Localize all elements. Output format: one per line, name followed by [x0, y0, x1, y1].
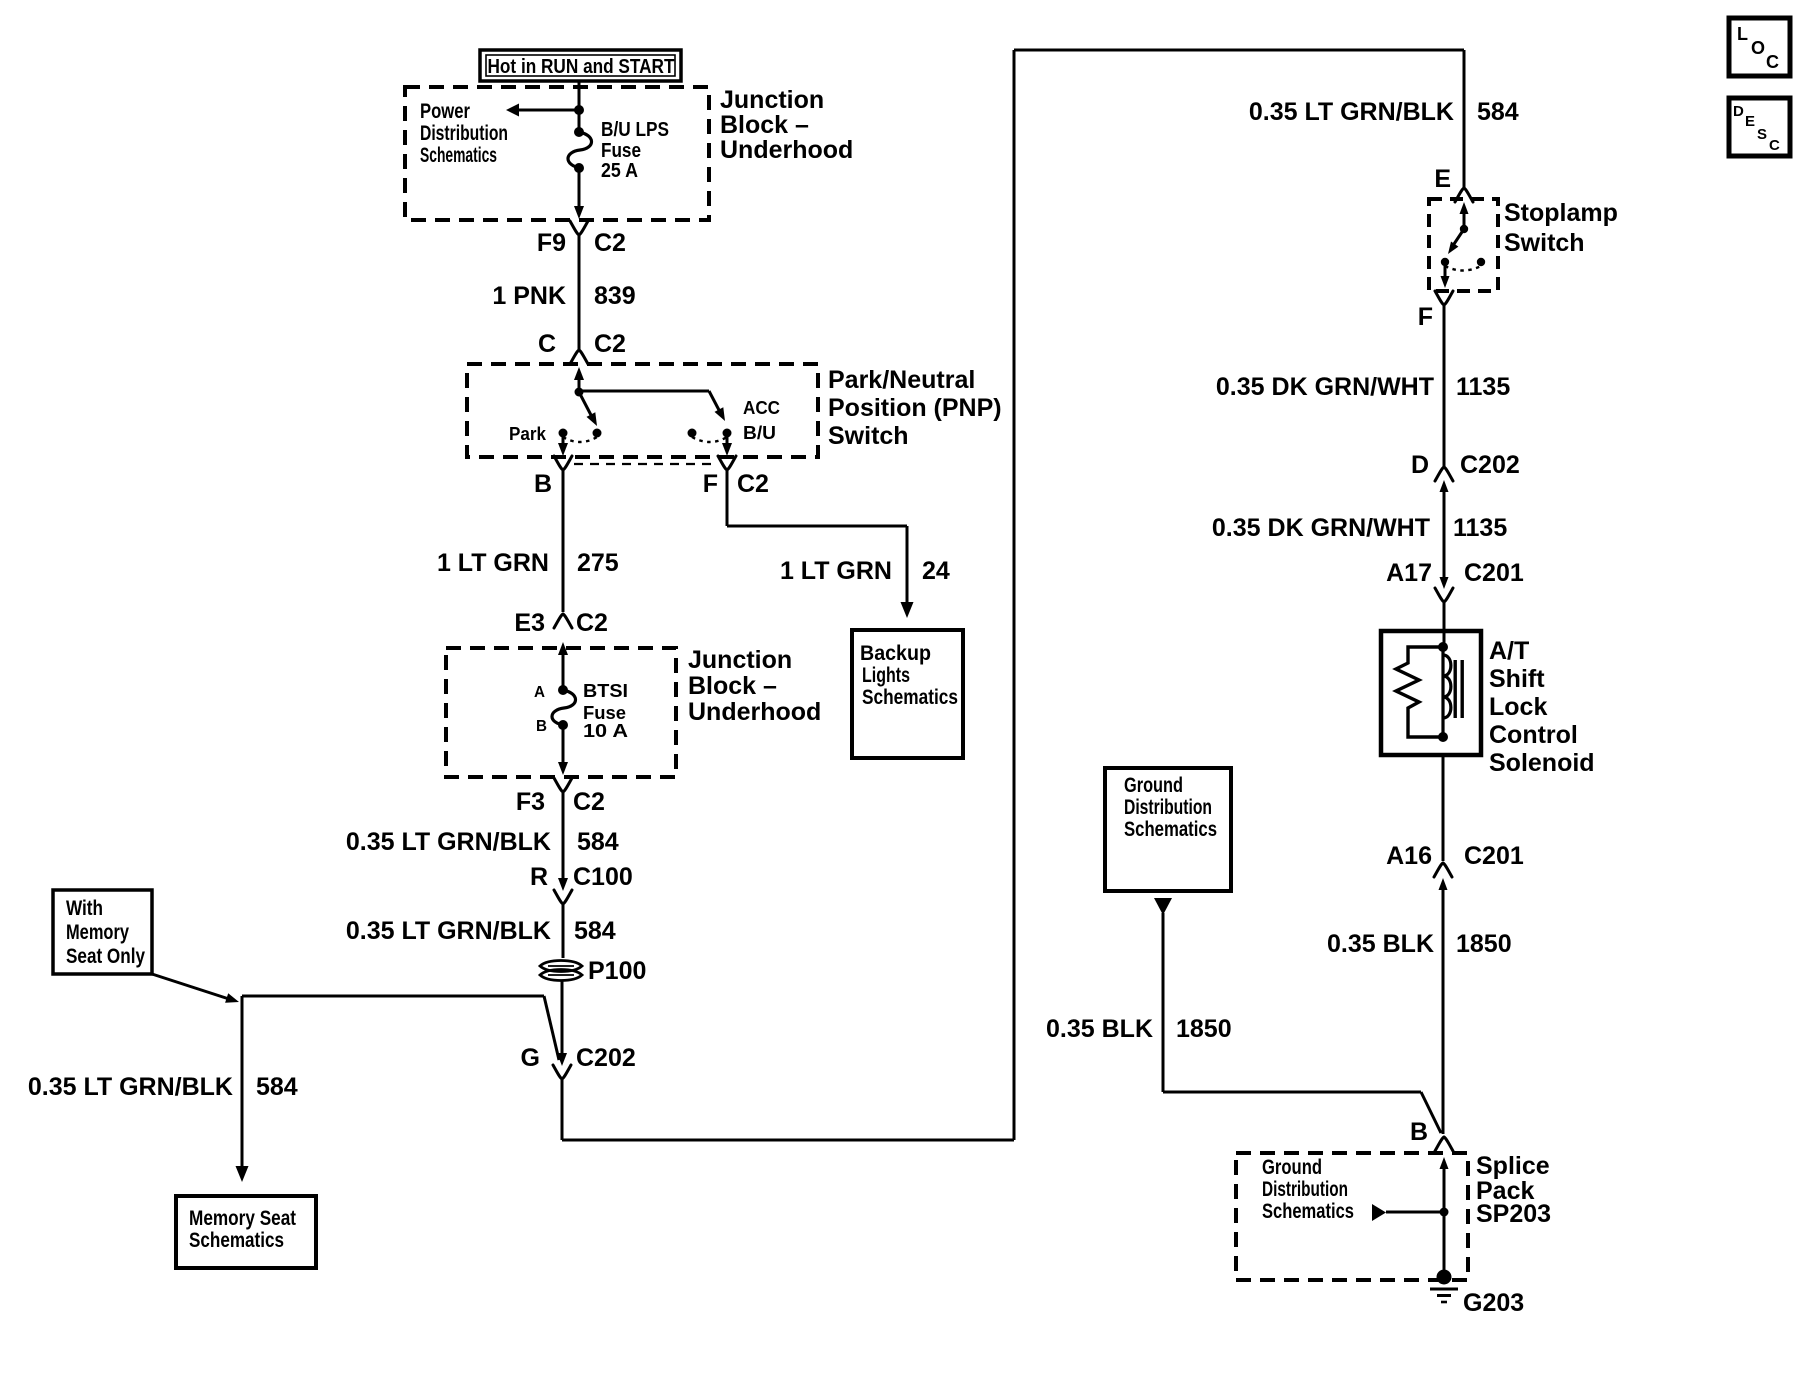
value label: 0.35 LT GRN/BLK 584 [1249, 98, 1519, 126]
off-page reference: Memory Seat Schematics [176, 1196, 316, 1268]
svg-text:Underhood: Underhood [688, 698, 821, 726]
svg-text:10 A: 10 A [583, 721, 628, 741]
value label: BTSI Fuse 10 A [583, 681, 628, 741]
connector C201 pin A16 [1386, 842, 1524, 890]
svg-text:Ground: Ground [1262, 1156, 1322, 1179]
svg-text:1 LT GRN: 1 LT GRN [780, 557, 892, 585]
connector C2 pin C [538, 330, 626, 364]
wire 584 0.35 LT GRN/BLK (to P100) [562, 904, 565, 958]
svg-text:1 LT GRN: 1 LT GRN [437, 549, 549, 577]
svg-text:P100: P100 [588, 957, 646, 985]
component label: A/T Shift Lock Control Solenoid [1489, 637, 1595, 777]
svg-text:0.35 BLK: 0.35 BLK [1046, 1015, 1153, 1043]
svg-text:C202: C202 [576, 1044, 636, 1072]
svg-text:C2: C2 [594, 229, 626, 257]
svg-text:C2: C2 [737, 470, 769, 498]
svg-text:B: B [1410, 1118, 1428, 1146]
wire: C201 pin A17 into solenoid [1443, 602, 1446, 647]
value label: 0.35 DK GRN/WHT 1135 [1216, 373, 1510, 401]
svg-text:Solenoid: Solenoid [1489, 749, 1595, 777]
svg-text:1135: 1135 [1456, 373, 1510, 401]
svg-text:Block –: Block – [720, 111, 809, 139]
node: stoplamp pivot [1460, 225, 1468, 233]
value label: B/U LPS Fuse 25 A [601, 119, 669, 182]
wire: memory-seat branch horizontal [242, 995, 544, 998]
svg-text:Splice: Splice [1476, 1152, 1550, 1180]
wire: entry arrow into stoplamp switch [1460, 202, 1469, 228]
switch throw arc (ACC) [692, 437, 727, 442]
wire: branch to power distribution (arrow left) [506, 104, 579, 117]
coil core bar 1 [1454, 660, 1457, 718]
svg-text:Underhood: Underhood [720, 136, 853, 164]
svg-text:G203: G203 [1463, 1289, 1524, 1317]
svg-text:C2: C2 [573, 788, 605, 816]
node: ACC contact B [723, 429, 732, 438]
node: solenoid bottom junction [1438, 732, 1448, 742]
svg-text:C2: C2 [576, 609, 608, 637]
svg-text:1850: 1850 [1456, 930, 1512, 958]
svg-text:G: G [521, 1044, 540, 1072]
svg-text:Park/Neutral: Park/Neutral [828, 366, 975, 394]
svg-text:A17: A17 [1386, 559, 1432, 587]
fuse B/U LPS 25A [568, 127, 592, 173]
svg-text:Control: Control [1489, 721, 1578, 749]
svg-text:E: E [1745, 113, 1755, 130]
svg-text:584: 584 [256, 1073, 298, 1101]
junction block J2 (Junction Block - Underhood) dashed outline [446, 648, 676, 777]
svg-text:839: 839 [594, 282, 636, 310]
ground G203 [1430, 1270, 1458, 1303]
svg-text:1 PNK: 1 PNK [492, 282, 566, 310]
switch S1 Park/Neutral Position (PNP) Switch dashed outline [467, 364, 818, 457]
svg-text:Switch: Switch [828, 422, 909, 450]
switch throw arc (Park) [563, 437, 597, 442]
inductor coil (solenoid winding) [1441, 647, 1444, 737]
connector C2 pin F [703, 456, 769, 498]
wire: solenoid to C201 pin A16 [1442, 755, 1445, 861]
value label: 1 LT GRN 24 [780, 557, 950, 585]
wire 839 1 PNK [578, 235, 581, 349]
svg-text:C201: C201 [1464, 559, 1524, 587]
svg-text:O: O [1751, 38, 1765, 58]
wire: Park contact to pin B [558, 437, 568, 456]
connector C2 pin B [534, 456, 572, 498]
switch arm (stoplamp) [1448, 229, 1464, 254]
switch throw arc (stoplamp) [1445, 266, 1481, 271]
component label: Splice Pack SP203 [1476, 1152, 1551, 1228]
node: ACC contact A [688, 429, 697, 438]
svg-text:1135: 1135 [1453, 514, 1507, 542]
wire 1850 0.35 BLK (solenoid ground side) [1442, 886, 1445, 1134]
node: Park contact B [593, 429, 602, 438]
wire: hot feed into junction block [578, 81, 581, 110]
value label: 0.35 LT GRN/BLK 584 [28, 1073, 298, 1101]
svg-text:C202: C202 [1460, 451, 1520, 479]
connector C2 pin F9 [537, 221, 626, 257]
svg-text:Hot in RUN and START: Hot in RUN and START [488, 56, 675, 78]
wire: splice tap [1386, 1211, 1444, 1214]
svg-text:A/T: A/T [1489, 637, 1529, 665]
node: fuse feed junction [574, 105, 584, 115]
svg-text:0.35 LT GRN/BLK: 0.35 LT GRN/BLK [346, 917, 551, 945]
wire: contact to pin F [1441, 266, 1450, 288]
svg-text:0.35 DK GRN/WHT: 0.35 DK GRN/WHT [1216, 373, 1434, 401]
wire: fuse to F9 terminal [574, 168, 584, 219]
svg-text:F3: F3 [516, 788, 545, 816]
svg-text:Memory: Memory [66, 921, 129, 944]
off-page reference: Backup Lights Schematics [852, 630, 963, 758]
coil core bar 2 [1461, 660, 1464, 718]
svg-text:0.35 BLK: 0.35 BLK [1327, 930, 1434, 958]
svg-text:C: C [1766, 52, 1779, 72]
svg-text:Schematics: Schematics [862, 686, 958, 709]
value label: 0.35 BLK 1850 [1046, 1015, 1232, 1043]
junction block J1 (Junction Block - Underhood) dashed outline [405, 87, 709, 220]
node: solenoid top junction [1438, 642, 1448, 652]
svg-text:Memory Seat: Memory Seat [189, 1207, 296, 1230]
svg-text:275: 275 [577, 549, 619, 577]
svg-text:Backup: Backup [860, 642, 931, 665]
wire: fuse to F3 terminal [558, 725, 568, 775]
svg-text:Distribution: Distribution [420, 122, 508, 145]
option note box: With Memory Seat Only [53, 890, 152, 974]
connector C202 pin G [521, 1044, 636, 1079]
svg-text:F: F [703, 470, 718, 498]
pin label ACC B/U [743, 398, 780, 443]
svg-text:C100: C100 [573, 863, 633, 891]
component label: Junction Block - Underhood [688, 646, 821, 726]
value label: 0.35 LT GRN/BLK 584 [346, 828, 619, 856]
wire 1135 0.35 DK GRN/WHT (upper) [1443, 305, 1446, 467]
svg-text:E3: E3 [514, 609, 545, 637]
svg-text:24: 24 [922, 557, 950, 585]
solenoid L1 A/T Shift Lock Control Solenoid box [1381, 631, 1481, 755]
svg-text:R: R [530, 863, 548, 891]
pointer from option note to branch [152, 974, 239, 1003]
component label: Junction Block - Underhood [720, 86, 853, 164]
svg-text:C: C [1769, 137, 1780, 154]
svg-text:B: B [534, 470, 552, 498]
connector C100 pin R [530, 863, 633, 904]
svg-text:0.35 LT GRN/BLK: 0.35 LT GRN/BLK [1249, 98, 1454, 126]
svg-text:Lights: Lights [862, 664, 910, 687]
node: PNP common pivot [575, 388, 584, 397]
fuse BTSI 10A [552, 685, 576, 730]
svg-text:25 A: 25 A [601, 160, 638, 182]
wire: C202 pin G down to crossover run [561, 1079, 564, 1140]
connector C2 shell dashed link [574, 463, 716, 465]
svg-text:BTSI: BTSI [583, 681, 628, 701]
wire: crossover run vertical riser [1013, 50, 1016, 1140]
svg-text:E: E [1434, 165, 1451, 193]
svg-text:Fuse: Fuse [583, 703, 626, 723]
svg-text:Switch: Switch [1504, 229, 1585, 257]
svg-text:Schematics: Schematics [1262, 1200, 1354, 1223]
note: Ground Distribution Schematics (in splice pack) [1262, 1156, 1354, 1223]
wire: entry arrow into PNP switch [574, 367, 584, 392]
svg-text:C: C [538, 330, 556, 358]
svg-text:Position (PNP): Position (PNP) [828, 394, 1002, 422]
wire 584 0.35 LT GRN/BLK (to stoplamp switch) [1463, 50, 1466, 188]
svg-text:0.35 LT GRN/BLK: 0.35 LT GRN/BLK [28, 1073, 233, 1101]
value label: 0.35 LT GRN/BLK 584 [346, 917, 616, 945]
value label: 0.35 BLK 1850 [1327, 930, 1512, 958]
svg-text:D: D [1733, 103, 1744, 120]
svg-text:0.35 DK GRN/WHT: 0.35 DK GRN/WHT [1212, 514, 1430, 542]
svg-text:Distribution: Distribution [1124, 796, 1212, 819]
svg-text:584: 584 [574, 917, 616, 945]
wire: P100 to C202 pin G [557, 980, 567, 1066]
svg-text:Power: Power [420, 100, 470, 123]
svg-text:Junction: Junction [688, 646, 792, 674]
value label: 0.35 DK GRN/WHT 1135 [1212, 514, 1507, 542]
svg-text:Fuse: Fuse [601, 140, 641, 162]
wire: common feed to ACC side [579, 390, 709, 393]
svg-text:Park: Park [509, 424, 547, 444]
svg-text:S: S [1757, 126, 1767, 143]
value label: 1 PNK 839 [492, 282, 635, 310]
wire: junction to fuse [578, 110, 581, 136]
node: splice SP203 junction [1440, 1208, 1449, 1217]
svg-text:Distribution: Distribution [1262, 1178, 1348, 1201]
wire 24 1 LT GRN (pin F to backup lights) [727, 470, 914, 618]
component label: Stoplamp Switch [1504, 199, 1618, 257]
svg-text:C2: C2 [594, 330, 626, 358]
wire 584 0.35 LT GRN/BLK (memory seat drop) [236, 996, 249, 1182]
svg-text:Shift: Shift [1489, 665, 1545, 693]
svg-text:Junction: Junction [720, 86, 824, 114]
switch arm to ACC B/U contact [709, 391, 725, 421]
pointer triangle to ground distribution note [1372, 1204, 1386, 1221]
svg-text:F9: F9 [537, 229, 566, 257]
component label: Park/Neutral Position (PNP) Switch [828, 366, 1002, 450]
wire 1135 0.35 DK GRN/WHT (lower) [1443, 488, 1446, 580]
wire 1850 0.35 BLK (ground distribution branch) [1163, 913, 1441, 1133]
svg-text:B/U LPS: B/U LPS [601, 119, 669, 141]
wire 275 1 LT GRN (pin B down) [562, 470, 565, 612]
connector pin E (stoplamp switch) [1434, 165, 1473, 202]
legend tab LOC [1729, 18, 1790, 76]
svg-text:Stoplamp: Stoplamp [1504, 199, 1618, 227]
svg-text:584: 584 [1477, 98, 1519, 126]
svg-text:F: F [1418, 303, 1433, 331]
connector C2 pin F3 [516, 778, 605, 816]
wire 584 0.35 LT GRN/BLK (upper) [562, 792, 565, 880]
svg-text:Schematics: Schematics [420, 144, 497, 167]
svg-text:B/U: B/U [743, 423, 776, 443]
svg-text:0.35 LT GRN/BLK: 0.35 LT GRN/BLK [346, 828, 551, 856]
svg-text:ACC: ACC [743, 398, 780, 418]
wire: entry arrow into junction block [558, 642, 568, 688]
svg-text:A16: A16 [1386, 842, 1432, 870]
legend tab DESC [1729, 98, 1790, 156]
grommet P100 [540, 957, 646, 985]
connector C2 pin E3 [514, 609, 608, 637]
svg-text:SP203: SP203 [1476, 1200, 1551, 1228]
wire: crossover run top horizontal [1014, 49, 1464, 52]
svg-text:A: A [534, 684, 545, 701]
svg-text:With: With [66, 897, 103, 920]
resistor (solenoid suppression) [1396, 647, 1443, 737]
switch S2 Stoplamp Switch dashed outline [1429, 199, 1498, 291]
svg-text:Schematics: Schematics [189, 1229, 284, 1252]
splice pack SP203 dashed outline [1236, 1153, 1468, 1280]
wire: branch diagonal into C202 pin G [544, 996, 559, 1060]
power feed label "Hot in RUN and START" [480, 50, 681, 81]
wire: entry arrow into splice pack [1440, 1157, 1449, 1277]
svg-text:L: L [1737, 24, 1748, 44]
svg-text:584: 584 [577, 828, 619, 856]
note: Power Distribution Schematics [420, 100, 508, 167]
node: stoplamp contact A [1441, 258, 1449, 266]
off-page reference: Ground Distribution Schematics [1105, 768, 1231, 891]
svg-text:D: D [1411, 451, 1429, 479]
wire: ACC contact to pin F [722, 437, 732, 456]
svg-text:B: B [536, 718, 547, 735]
wire: crossover run bottom horizontal [562, 1139, 1014, 1142]
connector pin F (stoplamp switch) [1418, 291, 1453, 331]
value label: 1 LT GRN 275 [437, 549, 619, 577]
switch arm to Park contact [579, 392, 597, 426]
svg-text:Seat Only: Seat Only [66, 945, 145, 968]
svg-text:1850: 1850 [1176, 1015, 1232, 1043]
svg-text:C201: C201 [1464, 842, 1524, 870]
svg-text:Block –: Block – [688, 672, 777, 700]
node: stoplamp contact B [1477, 258, 1485, 266]
connector C201 pin A17 [1386, 559, 1524, 602]
pointer triangle from ground distribution note [1154, 898, 1172, 915]
svg-text:Lock: Lock [1489, 693, 1547, 721]
node: Park contact A [559, 429, 568, 438]
svg-text:Schematics: Schematics [1124, 818, 1217, 841]
svg-text:Ground: Ground [1124, 774, 1183, 797]
connector pin B (splice pack) [1410, 1118, 1453, 1151]
connector C202 pin D [1411, 451, 1520, 492]
